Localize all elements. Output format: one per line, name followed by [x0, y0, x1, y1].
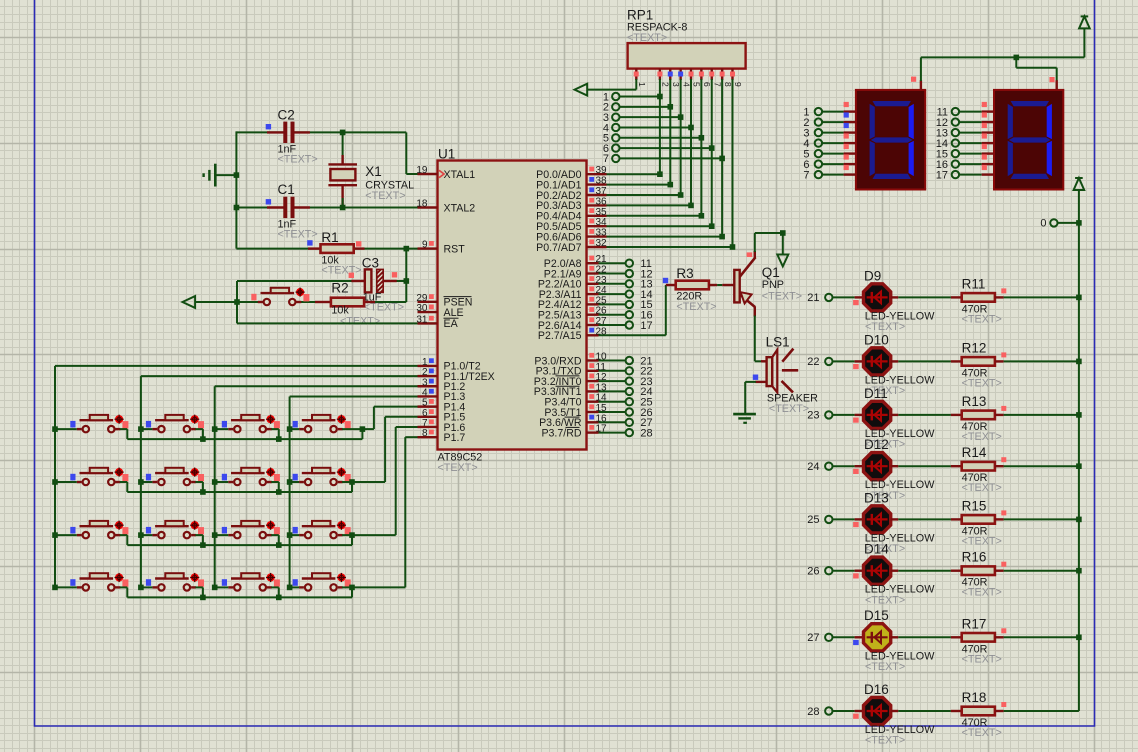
junction crystal top [340, 130, 346, 136]
terminal 14 [626, 290, 633, 297]
ground (speaker) [733, 413, 756, 416]
svg-text:<TEXT>: <TEXT> [962, 313, 1002, 325]
svg-text:9: 9 [422, 240, 428, 251]
bus verticals RP1 pins to P0 [659, 79, 661, 174]
wire terminal 0 [1058, 222, 1079, 224]
wire RP1 pin1 to arrow [587, 89, 636, 91]
terminal 15 (display2) [952, 150, 959, 157]
svg-text:X1: X1 [365, 164, 382, 179]
wire button r2c1 left [55, 481, 77, 483]
svg-text:24: 24 [807, 461, 819, 473]
terminal 17 [626, 321, 633, 328]
svg-text:<TEXT>: <TEXT> [340, 316, 380, 328]
speaker LS1 [761, 360, 767, 362]
capacitor C2 [267, 131, 284, 133]
svg-text:9: 9 [733, 82, 743, 87]
keypad button r1c3 [234, 426, 240, 432]
wire button r4c4 left [290, 586, 300, 588]
display2 common pin [1055, 80, 1057, 90]
LED D10 (LED-YELLOW) [864, 348, 891, 375]
pin 22 P2.1/A9 [587, 272, 599, 274]
RP1 pin 6 stub [700, 69, 702, 80]
resistor R12 470R [951, 360, 962, 362]
keypad button r2c4 [305, 479, 311, 485]
terminal 7 (display1) [815, 171, 822, 178]
MCU U1 body (AT89C52) [438, 161, 587, 450]
svg-text:LS1: LS1 [766, 335, 790, 350]
terminal arrow (reset row) [183, 296, 196, 308]
svg-text:D12: D12 [864, 437, 889, 452]
svg-text:C2: C2 [278, 107, 295, 122]
junction crystal bottom [340, 205, 346, 211]
pin 6 P1.5 [418, 416, 438, 418]
LED D12 (LED-YELLOW) [864, 453, 891, 480]
terminal 16 (display2) [952, 160, 959, 167]
wire P2.5 to terminal [599, 314, 626, 316]
wire keypad column 4 (P1.3) [289, 396, 291, 587]
svg-text:4: 4 [681, 82, 691, 87]
transistor Q1 PNP [722, 284, 734, 286]
svg-text:<TEXT>: <TEXT> [962, 535, 1002, 547]
wire button r3c2 left [141, 534, 153, 536]
wire terminal to D12 [833, 465, 855, 467]
wire display2 pin 14 [959, 142, 982, 144]
terminal 27 (LED) [825, 634, 832, 641]
pin 10 P3.0/RXD [587, 359, 599, 361]
svg-text:31: 31 [416, 314, 428, 325]
svg-text:R11: R11 [962, 276, 986, 291]
svg-text:<TEXT>: <TEXT> [865, 661, 905, 673]
pin 29 PSEN [418, 301, 438, 303]
wire P3.5 to terminal [599, 411, 626, 413]
pin 3 P1.2 [418, 385, 438, 387]
wire crystal top [342, 132, 344, 164]
pin 11 P3.1/TXD [587, 370, 599, 372]
svg-text:3: 3 [671, 82, 681, 87]
wire D14 to R16 [891, 570, 899, 572]
display1 common pin [920, 80, 922, 90]
wire display2 pin 11 [959, 111, 982, 113]
svg-text:D11: D11 [864, 386, 888, 401]
svg-text:<TEXT>: <TEXT> [962, 377, 1002, 389]
terminal 4 [612, 124, 619, 131]
wire R11 to bus [1004, 296, 1079, 298]
svg-text:7: 7 [603, 153, 609, 165]
terminal 21 (LED) [825, 294, 832, 301]
wire terminal to D9 [833, 296, 855, 298]
svg-text:<TEXT>: <TEXT> [438, 462, 478, 474]
wire keypad column 3 (P1.2) [214, 386, 216, 587]
terminal 12 [626, 270, 633, 277]
wire R17 to bus [1004, 636, 1079, 638]
svg-text:17: 17 [640, 320, 652, 332]
LED D14 (LED-YELLOW) [864, 557, 891, 584]
svg-text:C1: C1 [278, 182, 295, 197]
pin 15 P3.5/T1 [587, 411, 599, 413]
keypad button r3c2 [158, 532, 164, 538]
pin 37 P0.2/AD2 [587, 194, 607, 196]
pin 16 P3.6/WR [587, 421, 599, 423]
pin 39 P0.0/AD0 [587, 173, 607, 175]
svg-text:8: 8 [723, 82, 733, 87]
terminal 26 (LED) [825, 567, 832, 574]
svg-text:2: 2 [661, 82, 671, 87]
terminal 0 [1050, 219, 1057, 226]
push button (reset) [264, 299, 270, 305]
svg-text:XTAL2: XTAL2 [444, 202, 476, 214]
wire R1 row to RST [236, 248, 320, 250]
wire button r1c2 left [141, 428, 153, 430]
pin 2 P1.1/T2EX [418, 375, 438, 377]
svg-text:XTAL1: XTAL1 [444, 169, 476, 181]
wire P2.0 to terminal [599, 262, 626, 264]
pin 13 P3.3/INT1 [587, 390, 599, 392]
wire R18 to bus [1004, 710, 1079, 712]
svg-text:25: 25 [807, 514, 819, 526]
svg-text:P3.7/RD: P3.7/RD [541, 427, 581, 439]
svg-text:<TEXT>: <TEXT> [865, 321, 905, 333]
svg-text:ALE: ALE [444, 307, 464, 319]
svg-text:<TEXT>: <TEXT> [962, 431, 1002, 443]
terminal 3 (display1) [815, 129, 822, 136]
ground symbol [216, 174, 236, 176]
wire keypad row 3 net [120, 534, 128, 536]
LED D9 (LED-YELLOW) [864, 284, 891, 311]
wire R15 to bus [1004, 518, 1079, 520]
terminal 24 (LED) [825, 463, 832, 470]
svg-text:P1.7: P1.7 [444, 432, 466, 444]
wire left vertical (C2/gnd/C1/R1) [235, 131, 237, 248]
svg-text:5: 5 [692, 82, 702, 87]
svg-text:28: 28 [640, 427, 652, 439]
wire RST vertical to R2 row [405, 249, 407, 302]
svg-text:32: 32 [596, 238, 608, 249]
svg-text:P0.7/AD7: P0.7/AD7 [536, 242, 581, 254]
terminal 6 [612, 144, 619, 151]
power terminal (collector) [777, 255, 788, 267]
wire display1 pin 2 [822, 121, 844, 123]
svg-text:U1: U1 [438, 146, 455, 161]
pin 35 P0.4/AD4 [587, 215, 607, 217]
keypad button r4c2 [158, 584, 164, 590]
svg-text:<TEXT>: <TEXT> [278, 154, 318, 166]
keypad button r2c3 [234, 479, 240, 485]
terminal 16 [626, 311, 633, 318]
terminal 23 (LED) [825, 411, 832, 418]
svg-text:27: 27 [807, 632, 819, 644]
svg-text:1: 1 [637, 82, 647, 87]
terminal 1 [612, 93, 619, 100]
svg-text:<TEXT>: <TEXT> [962, 587, 1002, 599]
wire P3.2 to terminal [599, 380, 626, 382]
terminal 17 (display2) [952, 171, 959, 178]
wire P2.1 to terminal [599, 273, 626, 275]
terminal 21 [626, 357, 633, 364]
wire D12 to R14 [891, 465, 899, 467]
keypad button r1c2 [158, 426, 164, 432]
wire display1 pin 3 [822, 132, 844, 134]
svg-text:17: 17 [936, 169, 948, 181]
terminal 23 [626, 377, 633, 384]
7-segment display 1 [856, 90, 925, 190]
XTAL1 clock mark [439, 170, 444, 177]
wire terminal 3 [620, 116, 681, 118]
resistor R14 470R [951, 465, 962, 467]
wire terminal 2 [620, 106, 671, 108]
svg-text:D13: D13 [864, 490, 889, 505]
terminal 15 [626, 301, 633, 308]
keypad button r1c1 [83, 426, 89, 432]
LED D11 (LED-YELLOW) [864, 401, 891, 428]
wire terminal to D10 [833, 360, 855, 362]
terminal 7 [612, 155, 619, 162]
wire display2 pin 15 [959, 153, 982, 155]
resistor R11 470R [951, 296, 962, 298]
wire D11 to R13 [891, 414, 899, 416]
pin 23 P2.2/A10 [587, 283, 599, 285]
terminal 11 [626, 260, 633, 267]
wire P3.0 to terminal [599, 360, 626, 362]
pin 1 P1.0/T2 [418, 365, 438, 367]
junction C3 right [404, 278, 410, 284]
pin 9 RST [418, 247, 438, 249]
wire button r2c2 left [141, 481, 153, 483]
terminal 13 (display2) [952, 129, 959, 136]
pin 38 P0.1/AD1 [587, 183, 607, 185]
pin 34 P0.5/AD5 [587, 225, 607, 227]
wire C2 row to XTAL1 [236, 131, 284, 133]
svg-text:<TEXT>: <TEXT> [769, 403, 809, 415]
wire LED bus vertical [1078, 190, 1080, 711]
resistor R3 220R [666, 284, 676, 286]
pin 8 P1.7 [418, 436, 438, 438]
svg-text:30: 30 [416, 303, 428, 314]
svg-text:28: 28 [807, 706, 819, 718]
pin 24 P2.3/A11 [587, 293, 599, 295]
wire button r1c1 left [55, 428, 77, 430]
terminal 11 (display2) [952, 108, 959, 115]
svg-text:7: 7 [712, 82, 722, 87]
wire display2 pin 12 [959, 121, 982, 123]
wire R16 to bus [1004, 570, 1079, 572]
keypad button r4c3 [234, 584, 240, 590]
svg-text:39: 39 [596, 165, 608, 176]
pin 32 P0.7/AD7 [587, 246, 607, 248]
terminal arrow (RP1 common) [575, 84, 588, 96]
svg-text:R14: R14 [962, 445, 987, 460]
svg-text:D14: D14 [864, 542, 889, 557]
wire P3.3 to terminal [599, 390, 626, 392]
wire button r4c3 left [215, 586, 229, 588]
wire R14 to bus [1004, 465, 1079, 467]
terminal 25 (LED) [825, 516, 832, 523]
terminal 28 (LED) [825, 707, 832, 714]
svg-text:7: 7 [803, 169, 809, 181]
wire keypad row 4 net [120, 586, 128, 588]
pin 5 P1.4 [418, 405, 438, 407]
terminal 5 (display1) [815, 150, 822, 157]
svg-text:R12: R12 [962, 340, 987, 355]
terminal 6 (display1) [815, 160, 822, 167]
terminal 22 (LED) [825, 358, 832, 365]
svg-text:37: 37 [596, 186, 608, 197]
wire P3.6 to terminal [599, 421, 626, 423]
wire terminal to D14 [833, 570, 855, 572]
wire button r4c1 left [55, 586, 77, 588]
wire Q1 emitter to speaker [754, 316, 756, 362]
keypad button r2c2 [158, 479, 164, 485]
svg-text:R17: R17 [962, 616, 987, 631]
wire button r3c3 left [215, 534, 229, 536]
pin 25 P2.4/A12 [587, 303, 599, 305]
junction gnd [234, 172, 240, 178]
wire C1 row to XTAL2 [236, 207, 284, 209]
terminal 5 [612, 134, 619, 141]
wire P3.1 to terminal [599, 370, 626, 372]
wire P3.7 to terminal [599, 432, 626, 434]
terminal 3 [612, 113, 619, 120]
svg-text:R18: R18 [962, 690, 987, 705]
svg-text:C3: C3 [362, 256, 379, 271]
svg-text:8: 8 [422, 428, 428, 439]
pin 31 EA [418, 322, 438, 324]
svg-text:19: 19 [416, 165, 428, 176]
svg-text:P2.7/A15: P2.7/A15 [538, 330, 582, 342]
crystal X1 [328, 163, 357, 165]
svg-text:R16: R16 [962, 550, 987, 565]
wire EA row [237, 322, 438, 324]
wire display2 pin 17 [959, 174, 982, 176]
RP1 pin 9 stub [731, 69, 733, 80]
keypad button r1c4 [305, 426, 311, 432]
wire P2.2 to terminal [599, 283, 626, 285]
pin 4 P1.3 [418, 395, 438, 397]
terminal 13 [626, 280, 633, 287]
svg-text:33: 33 [596, 228, 608, 239]
wire P2.4 to terminal [599, 303, 626, 305]
svg-text:22: 22 [807, 356, 819, 368]
svg-text:<TEXT>: <TEXT> [865, 594, 905, 606]
svg-text:26: 26 [807, 566, 819, 578]
wire display1 pin 6 [822, 163, 844, 165]
wire display1 pin 7 [822, 174, 844, 176]
svg-text:<TEXT>: <TEXT> [364, 302, 404, 314]
wire keypad column 2 (P1.1) [140, 376, 142, 587]
terminal 26 [626, 408, 633, 415]
wire P2.7 to R3 [599, 334, 666, 336]
svg-text:21: 21 [807, 292, 819, 304]
svg-text:<TEXT>: <TEXT> [962, 727, 1002, 739]
RP1 pin 3 stub [669, 69, 671, 80]
svg-text:38: 38 [596, 176, 608, 187]
wire keypad row 1 net [120, 428, 128, 430]
7-segment display 2 [994, 90, 1063, 190]
terminal 4 (display1) [815, 139, 822, 146]
svg-text:R13: R13 [962, 394, 987, 409]
pin 36 P0.3/AD3 [587, 204, 607, 206]
resistor R17 470R [951, 636, 962, 638]
terminal 22 [626, 367, 633, 374]
pin 14 P3.4/T0 [587, 401, 599, 403]
RP1 pin 5 stub [690, 69, 692, 80]
wire keypad row 2 net [120, 481, 128, 483]
wire button r1c4 left [290, 428, 300, 430]
svg-text:35: 35 [596, 207, 608, 218]
terminal 28 [626, 429, 633, 436]
wire P2.3 to terminal [599, 293, 626, 295]
keypad button r3c1 [83, 532, 89, 538]
resistor R15 470R [951, 518, 962, 520]
resistor pack RP1 RESPACK-8 [628, 43, 746, 69]
resistor R16 470R [951, 570, 962, 572]
keypad button r2c1 [83, 479, 89, 485]
pin 12 P3.2/INT0 [587, 380, 599, 382]
wire keypad column 1 (P1.0) [54, 366, 56, 588]
svg-text:RST: RST [444, 243, 466, 255]
pin 18 XTAL2 [418, 206, 438, 208]
wire display2 pin 16 [959, 163, 982, 165]
svg-text:34: 34 [596, 217, 608, 228]
svg-text:<TEXT>: <TEXT> [627, 32, 667, 44]
svg-text:R3: R3 [676, 266, 693, 281]
wire terminal to D16 [833, 710, 855, 712]
pin 27 P2.6/A14 [587, 324, 599, 326]
wire C3 row [237, 280, 365, 282]
RP1 pin 2 stub [659, 69, 661, 80]
wire D9 to R11 [891, 296, 899, 298]
svg-text:D9: D9 [864, 268, 881, 283]
svg-text:0: 0 [1040, 218, 1046, 230]
wire Q1 collector to power [754, 233, 756, 252]
pin 19 XTAL1 [418, 173, 438, 175]
wire speaker to ground [745, 381, 756, 383]
terminal 25 [626, 398, 633, 405]
wire terminal to D15 [833, 636, 855, 638]
wire button r3c4 left [290, 534, 300, 536]
pin 7 P1.6 [418, 426, 438, 428]
pin 33 P0.6/AD6 [587, 235, 607, 237]
svg-text:<TEXT>: <TEXT> [762, 291, 802, 303]
svg-text:D16: D16 [864, 682, 889, 697]
wire terminal 1 [620, 96, 660, 98]
wire display1 pin 5 [822, 153, 844, 155]
wire terminal 7 [620, 157, 723, 159]
LED D15 (LED-YELLOW) [864, 624, 891, 651]
terminal 12 (display2) [952, 118, 959, 125]
keypad button r4c4 [305, 584, 311, 590]
svg-text:<TEXT>: <TEXT> [365, 190, 405, 202]
pin 17 P3.7/RD [587, 431, 599, 433]
wire D13 to R15 [891, 518, 899, 520]
svg-text:R1: R1 [321, 230, 338, 245]
RP1 pin 4 stub [679, 69, 681, 80]
svg-text:D15: D15 [864, 608, 889, 623]
junction C1 [234, 205, 240, 211]
terminal 2 (display1) [815, 118, 822, 125]
terminal 1 (display1) [815, 108, 822, 115]
wire button r2c3 left [215, 481, 229, 483]
svg-text:36: 36 [596, 196, 608, 207]
capacitor C1 [267, 206, 284, 208]
wire P2.6 to terminal [599, 324, 626, 326]
keypad button r3c4 [305, 532, 311, 538]
wire displays to power [920, 57, 922, 81]
RP1 pin 8 stub [721, 69, 723, 80]
wire D15 to R17 [891, 636, 899, 638]
terminal 24 [626, 388, 633, 395]
wire R12 to bus [1004, 360, 1079, 362]
capacitor C3 (1uF polarized) [351, 280, 365, 282]
